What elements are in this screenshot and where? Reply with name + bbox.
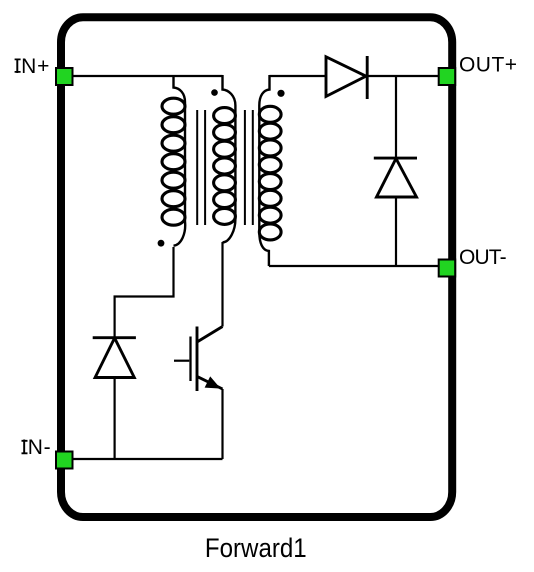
wire OUT+ rail to diode D2 cathode (395, 76, 397, 158)
wire IN- rail (72, 458, 223, 460)
polarity dot tertiary (top) (211, 89, 218, 96)
polarity dot secondary (top) (277, 90, 284, 97)
subsystem boundary (61, 17, 452, 517)
svg-text:OUT-: OUT- (459, 246, 507, 269)
terminal OUT- (439, 260, 456, 277)
wire IN+ to transformer primary top (72, 75, 223, 77)
diode D3 (reset clamp) (93, 338, 136, 378)
IGBT Q1 emitter arrow (205, 377, 219, 388)
IGBT Q1 (174, 327, 223, 392)
winding primary L1 (162, 75, 185, 246)
winding tertiary L2 (demag) (214, 75, 236, 243)
terminal IN- (56, 452, 73, 469)
wire diode D1 cathode to OUT+ (367, 75, 440, 77)
wire IGBT emitter to IN- rail (221, 389, 223, 459)
winding secondary L3 (259, 75, 281, 266)
svg-text:IN+: IN+ (14, 55, 49, 78)
wire diode D2 anode down to OUT- rail (395, 197, 397, 266)
terminal IN+ (56, 68, 73, 85)
diode D1 (output series) (326, 56, 367, 99)
wire diode D3 anode to IN- rail (113, 378, 115, 460)
wire primary bottom to diode D3 cathode (115, 247, 174, 338)
transformer core (197, 110, 253, 225)
wire secondary bottom to OUT- (269, 265, 440, 267)
wire tertiary winding bottom to IGBT collector (221, 242, 223, 327)
terminal OUT+ (439, 68, 456, 85)
polarity dot primary (bottom) (158, 240, 165, 247)
diode D2 (freewheeling) (374, 158, 417, 197)
svg-text:OUT+: OUT+ (459, 53, 517, 76)
svg-text:IN-: IN- (21, 436, 50, 459)
svg-text:Forward1: Forward1 (205, 533, 307, 563)
wire transformer secondary top to diode D1 anode (270, 75, 327, 77)
